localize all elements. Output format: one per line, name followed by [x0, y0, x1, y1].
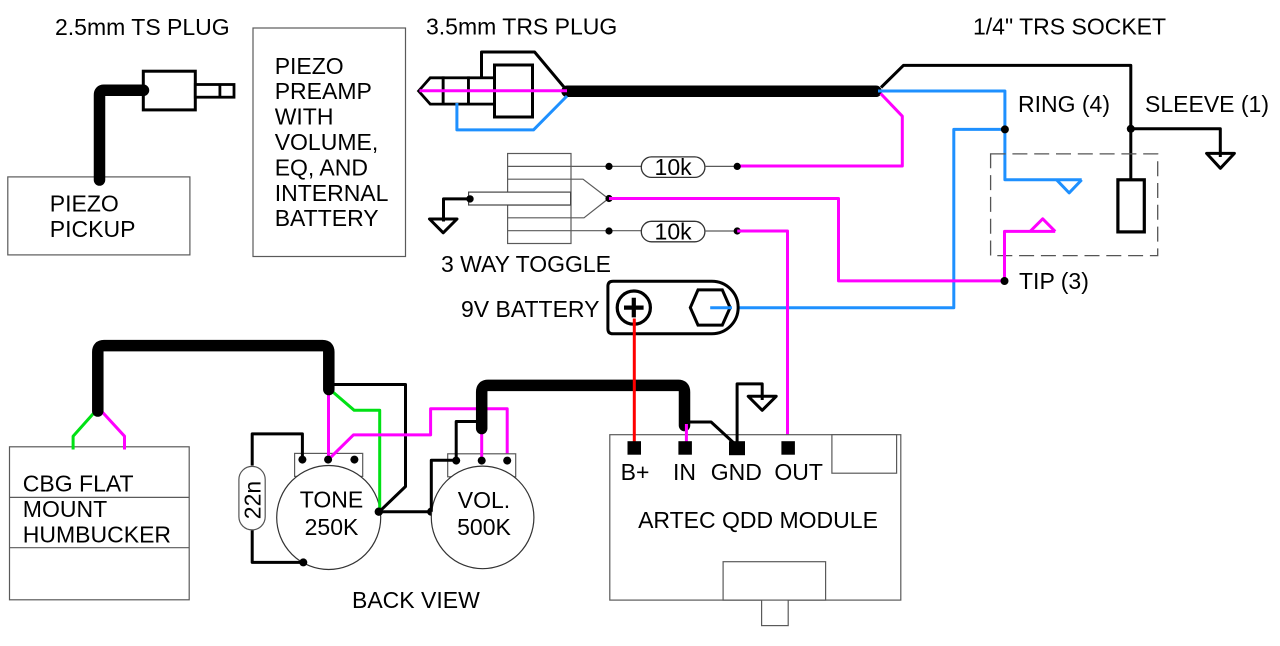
capacitor C1 22n — [239, 466, 265, 530]
svg-text:TONE: TONE — [300, 487, 363, 513]
wire blue ring to battery — [710, 129, 1005, 307]
module pin GND — [729, 441, 745, 455]
wire resistor R2 right — [705, 230, 737, 232]
3.5mm TRS cable — [567, 86, 876, 98]
wire toggle row6 to resistor — [571, 230, 641, 232]
svg-text:9V BATTERY: 9V BATTERY — [461, 296, 599, 322]
module top right inner box — [832, 435, 897, 474]
svg-text:PIEZO: PIEZO — [50, 191, 119, 217]
resistor R1 10k — [641, 157, 705, 178]
svg-text:2.5mm TS PLUG: 2.5mm TS PLUG — [55, 14, 230, 40]
wire magenta cable to module IN — [685, 424, 688, 442]
junction tone casing — [375, 508, 383, 516]
vol pot lugs — [452, 457, 460, 465]
wire magenta cable to tone lug2 — [327, 390, 330, 460]
svg-text:HUMBUCKER: HUMBUCKER — [23, 522, 171, 548]
ground symbol at toggle — [430, 219, 458, 233]
humbucker cable — [98, 346, 329, 411]
tone pot body — [277, 466, 381, 570]
wire 22n to tone lug1 — [252, 434, 302, 466]
3.5mm plug cap outline — [482, 52, 567, 90]
svg-text:10k: 10k — [655, 154, 693, 180]
2.5mm TS plug tip divider — [218, 85, 221, 98]
wire toggle common ground — [444, 199, 471, 222]
artec module box — [610, 435, 901, 600]
svg-text:3.5mm TRS PLUG: 3.5mm TRS PLUG — [426, 14, 617, 40]
svg-text:CBG FLAT: CBG FLAT — [23, 471, 134, 497]
toggle row lines — [508, 166, 571, 230]
junction tip node — [1001, 277, 1009, 285]
3.5mm plug ring segment 1 — [443, 78, 468, 104]
vol to module cable — [482, 385, 685, 428]
3 way toggle body — [508, 154, 571, 244]
svg-text:250K: 250K — [305, 514, 359, 540]
vol pot body — [431, 466, 534, 569]
junction 22n tone casing — [299, 558, 307, 566]
2.5mm TS plug shaft — [195, 85, 234, 98]
ring contact triangle — [1057, 180, 1082, 193]
tone pot lug plate — [295, 453, 363, 476]
svg-text:PREAMP: PREAMP — [275, 78, 372, 104]
resistor R2 10k — [641, 221, 705, 242]
humbucker box — [10, 447, 190, 600]
svg-text:WITH: WITH — [275, 104, 334, 130]
junction row6 left — [605, 227, 612, 234]
wire green humbucker lead — [73, 409, 97, 450]
wire cable shield to vol lug1 — [456, 422, 478, 461]
svg-text:OUT: OUT — [774, 459, 823, 485]
battery positive terminal — [617, 291, 650, 324]
wire magenta R2 to module OUT — [737, 231, 787, 441]
wire magenta tip junction to contact — [1005, 231, 1056, 281]
module bottom inner box — [723, 562, 826, 600]
wire green cable to tone casing — [330, 390, 380, 512]
sleeve contact — [1118, 180, 1144, 232]
wire blue ring lead of plug — [457, 96, 567, 130]
wire tone casing to vol casing — [379, 510, 432, 513]
battery negative terminal hexagon — [690, 290, 730, 325]
svg-text:EQ, AND: EQ, AND — [275, 154, 368, 180]
wire module GND to ground — [737, 384, 762, 444]
wire 22n to tone casing — [252, 531, 302, 563]
module pin IN — [678, 441, 692, 455]
junction toggle lever — [466, 195, 473, 202]
toggle selector V lines — [571, 179, 608, 218]
wire magenta tip conductor of plug — [420, 89, 568, 92]
svg-text:VOLUME,: VOLUME, — [275, 129, 379, 155]
wire toggle row1 to resistor — [571, 165, 641, 167]
svg-text:BACK VIEW: BACK VIEW — [352, 587, 480, 613]
wire blue ring plug to socket — [878, 91, 1082, 180]
wire magenta cable to vol lug2 — [480, 427, 483, 461]
wire magenta tip plug to 10k — [737, 94, 902, 167]
wire sleeve black to socket — [881, 65, 1220, 157]
svg-text:SLEEVE (1): SLEEVE (1) — [1145, 91, 1269, 117]
module pin OUT — [781, 441, 795, 455]
svg-text:RING (4): RING (4) — [1018, 91, 1110, 117]
svg-text:INTERNAL: INTERNAL — [275, 180, 389, 206]
svg-text:GND: GND — [711, 459, 762, 485]
junction toggle common out — [605, 195, 612, 202]
svg-text:MOUNT: MOUNT — [23, 496, 107, 522]
junction vol casing — [427, 508, 435, 516]
2.5mm TS plug body — [143, 71, 195, 110]
humbucker box lines — [10, 497, 190, 547]
module bottom tab — [762, 600, 789, 626]
socket dashed box — [991, 154, 1158, 256]
wire sleeve drop to contact — [1129, 129, 1132, 181]
junction sleeve node — [1127, 125, 1135, 133]
junction ring node — [1001, 125, 1009, 133]
wire red battery to B+ — [633, 319, 636, 443]
wire blue battery to hexagon center — [710, 306, 732, 309]
svg-text:22n: 22n — [240, 481, 266, 519]
svg-text:PICKUP: PICKUP — [50, 216, 136, 242]
module pin B+ — [628, 441, 642, 455]
piezo preamp box — [253, 28, 406, 257]
piezo pickup box — [8, 177, 190, 255]
junction row1 left — [605, 163, 612, 170]
svg-text:1/4" TRS SOCKET: 1/4" TRS SOCKET — [973, 14, 1166, 40]
tone pot lugs — [298, 456, 306, 464]
battery body — [608, 281, 738, 334]
3.5mm plug body — [495, 65, 533, 117]
wire black cable to module GND — [688, 422, 736, 445]
piezo cable — [100, 90, 144, 180]
svg-text:ARTEC QDD MODULE: ARTEC QDD MODULE — [638, 507, 878, 533]
svg-text:3 WAY TOGGLE: 3 WAY TOGGLE — [441, 251, 611, 277]
svg-text:10k: 10k — [655, 219, 693, 245]
vol pot lug plate — [448, 454, 516, 477]
svg-text:500K: 500K — [457, 514, 511, 540]
toggle lever bar — [469, 192, 571, 205]
svg-text:BATTERY: BATTERY — [275, 205, 379, 231]
wire magenta humbucker lead — [100, 409, 125, 450]
wire magenta tone lug2 to vol lug3 — [330, 409, 508, 461]
svg-text:B+: B+ — [621, 459, 650, 485]
wire black cable shield to tone casing — [333, 385, 406, 512]
svg-text:PIEZO: PIEZO — [275, 53, 344, 79]
ground symbol at sleeve — [1207, 153, 1235, 168]
svg-text:IN: IN — [673, 459, 696, 485]
junction row1 right — [734, 163, 741, 170]
tip contact triangle — [1030, 219, 1055, 232]
svg-text:TIP (3): TIP (3) — [1019, 268, 1089, 294]
3.5mm plug ring segment 2 — [469, 78, 495, 104]
wire resistor R1 right — [705, 165, 737, 167]
wire vol lug1 to vol casing — [431, 460, 456, 512]
ground symbol at module — [748, 396, 776, 410]
svg-text:VOL.: VOL. — [458, 487, 510, 513]
junction row6 right — [734, 227, 741, 234]
wire magenta toggle common to tip — [609, 199, 1005, 281]
3.5mm plug tip — [419, 78, 444, 104]
